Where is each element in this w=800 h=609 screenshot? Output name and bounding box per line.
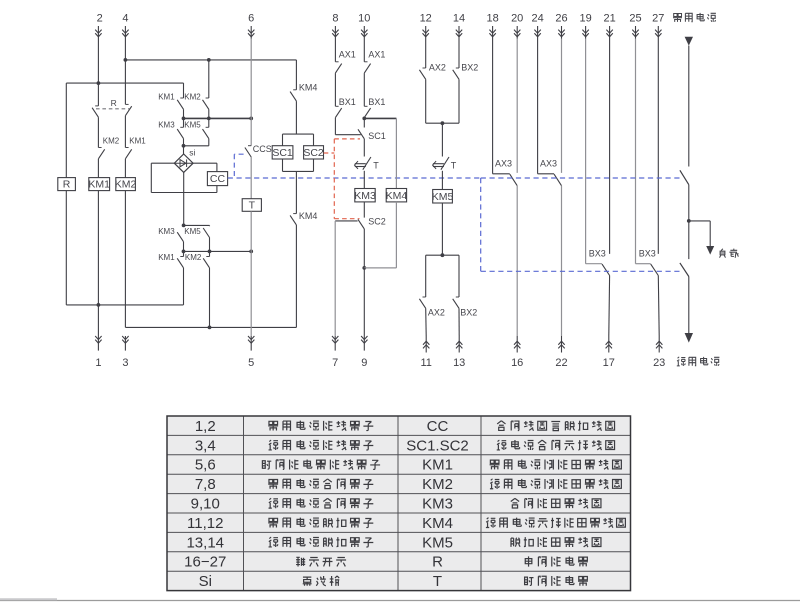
contact KM1 (rectifier feed) (177, 98, 183, 109)
node bus1/KM2 branch (207, 58, 211, 62)
selection coil SC2 (303, 146, 324, 159)
svg-text:SC2: SC2 (303, 147, 324, 159)
svg-text:T: T (451, 160, 457, 170)
contact KM1 (column C) (125, 148, 131, 159)
label BX1 (368, 97, 385, 107)
wire 23 column (657, 276, 660, 337)
svg-text:T: T (249, 200, 256, 212)
svg-text:13,14: 13,14 (186, 534, 224, 551)
line 6 wire upper (250, 39, 252, 146)
svg-text:12: 12 (420, 13, 432, 25)
split wiring y=255.2 (426, 254, 459, 256)
node bus1/column C (124, 58, 128, 62)
timed contact T (line 12/14) (433, 157, 449, 170)
merge wiring y=123.2 (426, 122, 459, 124)
contact KM5 (upper) (203, 127, 209, 138)
wire column C to KM2 coil (124, 159, 126, 178)
contact BX3 (19) (586, 39, 610, 276)
contact AX3 (24) (538, 39, 562, 186)
svg-text:14: 14 (453, 13, 465, 25)
wire CCS to T coil (250, 157, 252, 199)
timer coil T (242, 199, 261, 212)
node split 11/13 (441, 253, 445, 257)
wire column B below KM1 coil (97, 191, 99, 336)
svg-text:AX1: AX1 (368, 50, 385, 60)
page bottom rule (0, 599, 800, 600)
node line9/KM4 coil return (362, 266, 366, 270)
wire column C mid (124, 116, 126, 148)
svg-text:KM4: KM4 (299, 83, 318, 93)
label KM1 (129, 136, 146, 145)
contact BX1 (line 10) (364, 106, 370, 117)
contactor coil KM3 (354, 189, 376, 202)
wire KM4 coil return elbow (364, 202, 396, 268)
legend table frame (167, 416, 631, 591)
contact AX2 (line 11) (419, 297, 425, 308)
node load tap (687, 219, 691, 223)
rectifier bridge si (174, 154, 193, 172)
wire KM3 coil to SC2 contact (363, 202, 365, 218)
svg-text:AX1: AX1 (339, 50, 356, 60)
node bus3/line6 (249, 117, 253, 121)
node bus3b/KM2 branch (208, 250, 212, 254)
contact BX2 (line 13) (453, 297, 459, 308)
svg-text:9: 9 (361, 357, 367, 369)
svg-text:KM1: KM1 (158, 93, 175, 102)
contact R (column C, mirrored) (125, 104, 131, 115)
contact AX3 (18) (493, 39, 518, 186)
timed contact T (line 10) (355, 157, 371, 170)
label KM5 (184, 121, 201, 130)
table row 7: 13,14 / KM5 (186, 534, 600, 551)
svg-text:11,12: 11,12 (187, 515, 223, 532)
wire T coil to bus3b (250, 211, 252, 251)
main line from normal supply (688, 46, 690, 167)
control link CCS (blue dashed) (234, 154, 243, 178)
wire 27 column (657, 39, 659, 254)
contact KM3 (lower) (177, 232, 183, 242)
node bus3/KM3 branch (182, 117, 186, 121)
node bus3b/KM1 branch (182, 250, 186, 254)
main line middle (688, 185, 690, 259)
wire line 13 lower (458, 308, 460, 336)
svg-text:1,2: 1,2 (195, 418, 216, 435)
terminal 11 (bottom) (420, 336, 431, 369)
terminal 22 (bottom) (555, 336, 567, 369)
contact AX2 (line 12) (419, 68, 425, 79)
terminal 9 (bottom) (361, 336, 367, 369)
contact KM3 (upper) (177, 127, 183, 138)
svg-text:BX1: BX1 (368, 97, 385, 107)
contact SC2 (line 10) (358, 219, 364, 229)
wire KM4 to coil group (295, 101, 297, 134)
svg-text:11: 11 (420, 357, 431, 369)
selection link SC2 coil (red dashed) (324, 152, 335, 154)
contact BX3 (25) (636, 39, 659, 276)
contact KM5 (lower) (203, 228, 209, 238)
svg-text:CC: CC (210, 173, 226, 185)
wire split to BX2 contact (458, 255, 460, 297)
svg-text:SC1.SC2: SC1.SC2 (406, 437, 469, 454)
node bus4/terminal-1 column (97, 303, 101, 307)
contact KM4 (lower) (290, 214, 296, 225)
svg-text:SC1: SC1 (272, 147, 293, 159)
terminal 24 (top) (531, 13, 543, 39)
svg-text:KM5: KM5 (184, 121, 201, 130)
terminal 2 (top) (95, 13, 103, 39)
node bus3 segment B (362, 117, 366, 121)
table row 2: 3,4 / SC1.SC2 (195, 437, 615, 454)
svg-text:KM2: KM2 (422, 476, 453, 493)
column B wire upper (97, 39, 99, 106)
terminal 17 (bottom) (603, 336, 615, 369)
svg-text:BX1: BX1 (339, 97, 356, 107)
column C wire upper (124, 39, 126, 105)
wire 17 column (608, 276, 611, 337)
normal supply feed triangle (685, 37, 693, 46)
line 10 wire top (363, 39, 365, 62)
rectifier loop wiring (151, 163, 217, 192)
transfer switch contact (reserve) (680, 263, 689, 277)
svg-text:19: 19 (579, 13, 591, 25)
svg-text:16: 16 (511, 357, 523, 369)
label T (451, 160, 457, 170)
selection link to SC2 contact (red dashed) (334, 218, 359, 220)
wire coil group to lower KM4 (295, 171, 297, 213)
selection link to SC1 contact (red dashed) (334, 138, 360, 140)
svg-text:SC1: SC1 (368, 131, 386, 141)
svg-text:21: 21 (603, 13, 615, 25)
svg-text:KM2: KM2 (185, 253, 202, 262)
wire line 5 lower (250, 251, 252, 336)
contact AX1 (line 8) (335, 62, 341, 73)
wire T contact to KM3 coil (363, 171, 365, 189)
wire 26-22 column (561, 39, 563, 337)
label si (189, 148, 195, 158)
svg-text:KM2: KM2 (184, 93, 201, 102)
contact KM2 (column B) (98, 148, 104, 159)
wire KM3 upper contact (183, 118, 185, 127)
svg-text:17: 17 (603, 357, 615, 369)
svg-text:BX3: BX3 (589, 248, 606, 258)
label KM4 (299, 83, 318, 93)
wire KM5 coil to split (441, 203, 443, 255)
load branch wire (689, 221, 710, 246)
terminal 19 (top) (579, 13, 591, 39)
wire split to AX2 contact (425, 255, 427, 297)
label AX2 (428, 307, 445, 317)
label BX2 (461, 63, 478, 73)
wire line 8 to SC1 contact (335, 118, 360, 135)
wire T contact to KM5 coil (441, 171, 443, 190)
table row 9: Si / T (199, 573, 588, 590)
label KM1 (158, 253, 175, 262)
label BX2 (460, 307, 477, 317)
table row 1: 1,2 / CC (195, 418, 615, 435)
label AX2 (429, 63, 446, 73)
svg-text:KM4: KM4 (422, 515, 453, 532)
wire 20-16 column (516, 39, 518, 337)
contactor coil KM1 (88, 178, 110, 191)
wire SC2 contact to node (363, 229, 365, 268)
wire lower KM4 to bus5 (295, 225, 297, 328)
transfer switch contact (normal) (680, 170, 689, 184)
wire below KM3 contact (183, 139, 185, 146)
svg-text:3: 3 (122, 357, 128, 369)
terminal 25 (top) (629, 13, 641, 39)
svg-text:AX2: AX2 (429, 63, 446, 73)
label CCS (253, 144, 272, 154)
label KM1 (158, 93, 175, 102)
terminal 4 (top) (122, 13, 128, 39)
aux group outline (blue dashed) (481, 178, 683, 271)
svg-text:SC2: SC2 (368, 217, 386, 227)
node bus2/column B (97, 81, 101, 85)
bus3 wire y=118.4 (left segment) (184, 117, 252, 119)
wire line 10 to node (363, 117, 365, 120)
terminal 18 (top) (486, 13, 498, 39)
svg-text:BX2: BX2 (460, 307, 477, 317)
contactor coil KM4 (386, 189, 408, 202)
wire rectifier to lower contacts (183, 172, 185, 225)
contact KM1 (lower) (177, 257, 183, 268)
table row 5: 9,10 / KM3 (191, 496, 601, 513)
bus3 wire (segment B) (364, 117, 396, 119)
wire line 7 elbow (335, 221, 357, 336)
wire line 11 lower (425, 308, 428, 336)
bus2 wire y=83.1 (66, 82, 183, 84)
label load (720, 249, 739, 258)
terminal 23 (bottom) (653, 336, 665, 369)
contactor coil KM2 (115, 178, 137, 191)
contact CCS (245, 146, 251, 157)
wire bus1 corner down (295, 60, 297, 90)
svg-text:27: 27 (652, 13, 664, 25)
svg-text:5,6: 5,6 (195, 457, 216, 474)
load arrow (706, 246, 714, 255)
bus1 wire y=59.9 (125, 59, 296, 61)
table row 8: 16−27 / R (184, 554, 588, 571)
svg-text:13: 13 (453, 357, 465, 369)
svg-text:4: 4 (122, 13, 128, 25)
svg-text:KM3: KM3 (354, 190, 376, 202)
wire below lower KM3 (183, 242, 185, 252)
svg-text:R: R (432, 554, 443, 571)
wire node to rectifier (183, 146, 185, 154)
table row 3: 5,6 / KM1 (195, 457, 622, 474)
label KM5 (184, 227, 201, 236)
wire KM2 lower contact (209, 251, 211, 256)
svg-text:AX3: AX3 (495, 159, 512, 169)
terminal 8 (top) (332, 13, 338, 39)
wire KM5 elbow to node (184, 139, 209, 146)
wire column B to KM1 coil (97, 159, 99, 178)
bus3b wire y=251.4 (184, 250, 252, 252)
svg-text:BX3: BX3 (639, 248, 656, 258)
terminal 21 (top) (603, 13, 615, 39)
wire below KM1 contact (183, 109, 185, 118)
node bus3b/line5 (249, 250, 253, 254)
coil group top wiring (283, 134, 314, 146)
wire line 8 mid (334, 73, 336, 106)
svg-text:24: 24 (531, 13, 543, 25)
svg-text:KM3: KM3 (158, 121, 175, 130)
svg-text:7,8: 7,8 (195, 476, 216, 493)
line 8 wire top (334, 39, 336, 62)
terminal 3 (bottom) (122, 336, 128, 369)
terminal 10 (top) (358, 13, 370, 39)
svg-text:KM3: KM3 (422, 496, 453, 513)
label R (111, 98, 117, 108)
contact BX2 (line 14) (453, 68, 459, 79)
svg-text:22: 22 (555, 357, 567, 369)
contact AX1 (line 10) (364, 62, 370, 73)
node below rectifier (182, 224, 186, 228)
svg-text:KM1: KM1 (88, 179, 110, 191)
svg-text:25: 25 (629, 13, 641, 25)
wire line 12 to merge (425, 79, 427, 123)
svg-text:7: 7 (332, 357, 338, 369)
svg-text:6: 6 (248, 13, 254, 25)
wire column C below KM2 coil (124, 191, 126, 328)
terminal 12 (top) (420, 13, 432, 39)
relay coil R (58, 178, 76, 191)
wire KM5 lower elbow (184, 224, 210, 227)
label KM4 (299, 211, 318, 221)
svg-text:18: 18 (486, 13, 498, 25)
svg-text:si: si (189, 148, 195, 158)
wire line 10 mid (363, 73, 365, 106)
bus4 wire y=304.9 (66, 304, 183, 306)
svg-text:26: 26 (555, 13, 567, 25)
table row 4: 7,8 / KM2 (195, 476, 622, 493)
label SC2 (368, 217, 386, 227)
node bus3/KM5 branch (207, 117, 211, 121)
label AX1 (339, 50, 356, 60)
svg-text:3,4: 3,4 (195, 437, 216, 454)
terminal 16 (bottom) (511, 336, 523, 369)
svg-text:9,10: 9,10 (191, 496, 220, 513)
coil group bottom wiring (283, 159, 314, 171)
wire lower KM1 to bus4 (183, 268, 185, 305)
svg-text:KM1: KM1 (158, 253, 175, 262)
selection coil SC1 (272, 146, 293, 159)
svg-text:20: 20 (511, 13, 523, 25)
node above rectifier (182, 144, 186, 148)
bus5 wire y=327.4 (125, 326, 296, 328)
terminal 13 (bottom) (453, 336, 465, 369)
line 12 wire top (425, 39, 427, 69)
terminal 14 (top) (453, 13, 465, 39)
svg-text:23: 23 (653, 357, 665, 369)
svg-text:2: 2 (97, 13, 103, 25)
svg-text:5: 5 (248, 357, 254, 369)
terminal 20 (top) (511, 13, 523, 39)
svg-text:R: R (111, 98, 117, 108)
terminal 26 (top) (555, 13, 567, 39)
wire merge to T contact (441, 123, 443, 156)
svg-text:KM5: KM5 (422, 534, 453, 551)
svg-text:8: 8 (332, 13, 338, 25)
label BX1 (339, 97, 356, 107)
svg-text:KM1: KM1 (422, 457, 453, 474)
contact BX1 (line 8) (335, 106, 341, 117)
control link CC bus (blue dashed) (228, 177, 481, 179)
main line lower (688, 277, 690, 334)
terminal 7 (bottom) (332, 336, 338, 369)
label SC1 (368, 131, 386, 141)
line 14 wire top (458, 39, 460, 69)
reserve supply feed triangle (685, 333, 693, 343)
svg-text:AX3: AX3 (540, 159, 557, 169)
svg-text:KM3: KM3 (158, 227, 175, 236)
svg-text:CCS: CCS (253, 144, 272, 154)
label KM2 (184, 93, 201, 102)
label KM3 (158, 227, 175, 236)
svg-text:T: T (373, 160, 379, 170)
label KM2 (185, 253, 202, 262)
wire line 14 to merge (458, 79, 460, 123)
contact KM4 (upper) (290, 90, 296, 101)
svg-text:AX2: AX2 (428, 307, 445, 317)
label KM2 (103, 136, 120, 145)
node bus5/KM2 lower branch (208, 326, 212, 330)
wire KM5 upper contact (208, 118, 210, 127)
svg-text:BX2: BX2 (461, 63, 478, 73)
svg-text:KM4: KM4 (386, 190, 408, 202)
wire lower KM2 to bus5 (209, 268, 211, 328)
svg-text:CC: CC (427, 418, 449, 435)
terminal 5 (bottom) (248, 336, 254, 369)
terminal 1 (bottom) (95, 336, 101, 369)
svg-text:Si: Si (199, 573, 212, 590)
svg-text:1: 1 (95, 357, 101, 369)
svg-text:KM5: KM5 (184, 227, 201, 236)
svg-text:10: 10 (358, 13, 370, 25)
terminal 27 (top) (652, 13, 664, 39)
wire below KM2 contact (208, 109, 210, 118)
label reserve supply (bottom right) (677, 357, 720, 366)
table row 6: 11,12 / KM4 (187, 515, 625, 532)
contact KM2 (rectifier feed) (203, 98, 209, 109)
wire line 9 lower (363, 268, 365, 336)
wire below lower KM5 (209, 238, 211, 252)
selection link vertical (red dashed) (333, 139, 335, 219)
svg-text:KM2: KM2 (115, 179, 137, 191)
column A wire (R coil branch) (65, 83, 67, 305)
contact R (column B) (92, 106, 98, 117)
svg-text:R: R (63, 179, 71, 191)
contact KM2 (lower) (203, 257, 209, 268)
label AX1 (368, 50, 385, 60)
coil CC (closing/trip coil) (207, 172, 227, 186)
trip coil KM5 (432, 190, 454, 204)
mechanical link R (dashed) (96, 108, 130, 110)
label KM3 (158, 121, 175, 130)
wire KM2 upper contact (208, 60, 210, 98)
terminal 6 (top) (248, 13, 254, 39)
node merge 12/14 (441, 121, 445, 125)
svg-text:T: T (433, 573, 442, 590)
wire SC1 to T contact (363, 139, 365, 157)
svg-text:KM1: KM1 (129, 136, 146, 145)
label normal supply (top right) (673, 13, 716, 22)
svg-text:KM2: KM2 (103, 136, 120, 145)
wire column B mid (97, 117, 99, 147)
contact SC1 (line 10) (358, 118, 364, 138)
wire KM1 upper contact (183, 83, 185, 98)
svg-text:KM5: KM5 (432, 191, 454, 203)
